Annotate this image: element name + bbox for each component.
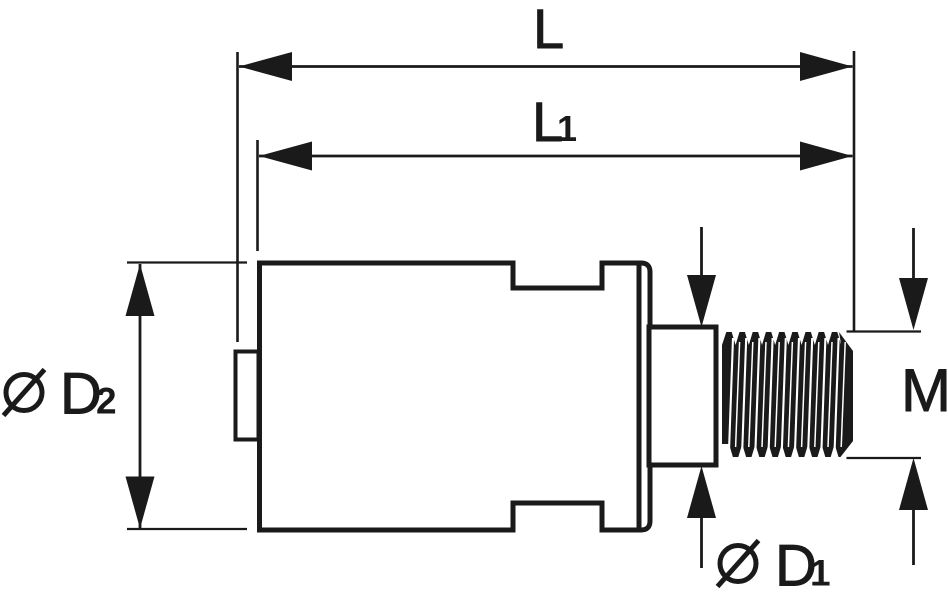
dimension L1 line — [259, 155, 853, 158]
label D2 text — [60, 362, 117, 427]
diameter D1 arrow down (top) — [687, 227, 716, 327]
svg-text:1: 1 — [557, 108, 577, 149]
thread M extension line bottom — [847, 457, 922, 459]
label L — [533, 0, 564, 60]
diameter D2 arrow up — [126, 264, 155, 316]
svg-text:1: 1 — [810, 553, 831, 594]
label D1 text — [775, 534, 831, 599]
thread M arrow down (top) — [899, 228, 928, 330]
adapter body outline — [260, 263, 651, 530]
dimension L arrow left — [239, 52, 292, 81]
dimension L extension line left — [236, 52, 239, 342]
diameter D2 arrow down — [126, 477, 155, 529]
dimension L1 arrow left — [259, 142, 312, 171]
dimension L1 arrow right — [800, 142, 853, 171]
thread M arrow up (bottom) — [899, 458, 928, 565]
diameter D1 arrow up (bottom) — [687, 466, 716, 568]
label D1 diameter symbol — [718, 541, 759, 587]
svg-text:L: L — [533, 0, 564, 60]
threaded stud silhouette — [722, 332, 853, 457]
diameter D2 dimension line — [139, 264, 142, 529]
diameter D2 extension line bottom — [127, 528, 247, 530]
thread M extension line top — [847, 330, 922, 332]
flange face line — [637, 263, 642, 530]
label L1 — [532, 90, 577, 153]
label M — [901, 357, 948, 424]
dimension L arrow right — [800, 52, 853, 81]
label D2 diameter symbol — [4, 370, 45, 416]
svg-text:2: 2 — [96, 381, 117, 422]
dimension L/L1 extension line right — [853, 51, 856, 331]
svg-text:M: M — [901, 357, 948, 424]
collar (thread relief neck) — [649, 327, 716, 465]
diameter D2 extension line top — [127, 261, 247, 263]
locating tab on left face — [236, 352, 259, 440]
dimension L1 extension line left — [256, 140, 259, 251]
dimension L line — [239, 65, 853, 68]
